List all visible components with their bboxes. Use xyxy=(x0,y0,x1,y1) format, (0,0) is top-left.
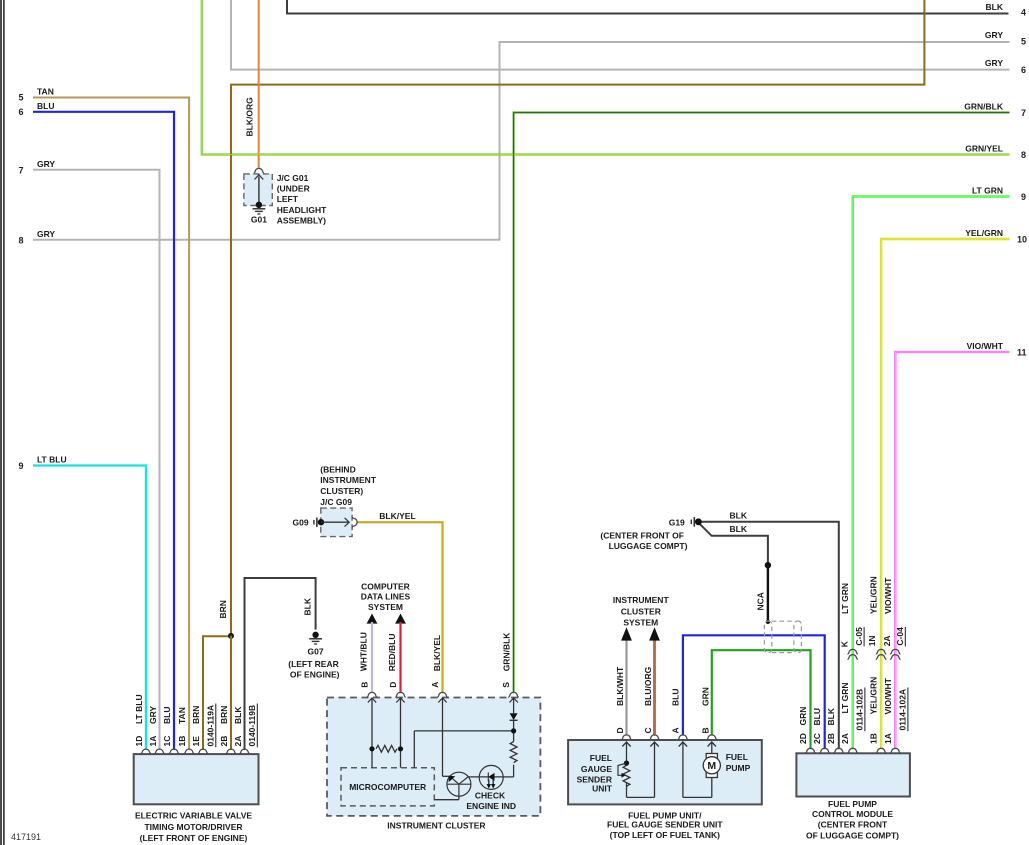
svg-text:COMPUTER: COMPUTER xyxy=(361,582,410,592)
svg-text:GRY: GRY xyxy=(985,58,1003,68)
svg-text:5: 5 xyxy=(18,93,23,103)
svg-text:LT GRN: LT GRN xyxy=(840,583,850,614)
svg-text:UNIT: UNIT xyxy=(592,784,613,794)
svg-text:1A: 1A xyxy=(148,736,158,747)
svg-text:BLU/ORG: BLU/ORG xyxy=(643,666,653,706)
WHT/BLU stripe white core xyxy=(371,622,373,693)
svg-text:A: A xyxy=(670,727,680,733)
svg-text:(UNDER: (UNDER xyxy=(277,183,310,193)
box electric variable valve timing motor/driver xyxy=(134,754,259,804)
wire BLK G19 to module pin 2B xyxy=(700,522,839,749)
svg-text:LT BLU: LT BLU xyxy=(37,455,67,465)
wire BRN pin2B xyxy=(230,636,232,750)
svg-text:FUEL: FUEL xyxy=(726,752,748,762)
svg-text:VIO/WHT: VIO/WHT xyxy=(967,341,1004,351)
wire GRN/YEL top to row8-right xyxy=(202,0,1010,155)
svg-text:(CENTER FRONT OF: (CENTER FRONT OF xyxy=(600,530,684,540)
svg-text:LEFT: LEFT xyxy=(277,194,299,204)
wire fuel pin C down xyxy=(654,742,656,798)
wire ORG top to J/C G01 xyxy=(258,0,260,168)
svg-text:1N: 1N xyxy=(867,635,877,646)
wire VIO/WHT row11-right to module pin 1A xyxy=(895,352,1009,749)
arrow fuel pin A xyxy=(679,742,687,747)
arrow to computer data lines system WHT/BLU xyxy=(367,614,378,624)
svg-text:GRN/BLK: GRN/BLK xyxy=(501,632,511,672)
wire transistor base lead xyxy=(458,796,460,800)
inline connector C-04 pin 2A lower cup xyxy=(890,655,900,659)
wire cluster pin D to microcomputer xyxy=(400,698,402,768)
wire microcomputer to transistor base xyxy=(434,799,459,801)
connector cup VVT pin 1C xyxy=(169,749,179,753)
svg-text:2A: 2A xyxy=(233,736,243,747)
svg-text:TIMING MOTOR/DRIVER: TIMING MOTOR/DRIVER xyxy=(144,822,242,832)
svg-text:2C: 2C xyxy=(812,733,822,744)
svg-text:GAUGE: GAUGE xyxy=(581,764,613,774)
svg-text:2B: 2B xyxy=(219,736,229,747)
svg-text:1B: 1B xyxy=(869,733,879,744)
svg-text:11: 11 xyxy=(1017,348,1027,358)
wire BRN branch pin1E xyxy=(203,636,231,750)
svg-text:1E: 1E xyxy=(191,736,201,747)
connector cup module pin 2C xyxy=(820,748,830,752)
svg-text:2D: 2D xyxy=(798,733,808,744)
junction dot node B xyxy=(369,746,374,751)
arrow cluster pin S xyxy=(510,698,518,703)
wire BLU/ORG fuel pin C xyxy=(653,641,655,736)
wire cluster pin B to microcomputer xyxy=(371,698,373,768)
svg-text:OF LUGGAGE COMPT): OF LUGGAGE COMPT) xyxy=(806,830,899,840)
wire TAN row5-left xyxy=(33,98,189,750)
J/C G09 xyxy=(314,508,357,536)
svg-text:DATA LINES: DATA LINES xyxy=(361,592,411,602)
svg-text:YEL/GRN: YEL/GRN xyxy=(965,228,1003,238)
svg-text:S: S xyxy=(501,682,511,688)
svg-text:GRY: GRY xyxy=(148,706,158,724)
svg-text:(CENTER FRONT: (CENTER FRONT xyxy=(818,820,888,830)
svg-text:2A: 2A xyxy=(882,635,892,646)
connector cup VVT pin 2A xyxy=(239,749,249,753)
svg-text:1A: 1A xyxy=(883,733,893,744)
svg-text:YEL/GRN: YEL/GRN xyxy=(869,677,879,715)
box instrument cluster xyxy=(327,698,540,816)
svg-text:BRN: BRN xyxy=(219,706,229,724)
svg-text:FUEL: FUEL xyxy=(590,753,612,763)
connector cup fuel pin D xyxy=(621,735,631,739)
wiper arrow fuel sender xyxy=(618,763,627,775)
svg-text:(BEHIND: (BEHIND xyxy=(320,464,355,474)
box fuel pump control module xyxy=(796,753,910,796)
connector cup VVT pin 1A xyxy=(154,749,164,753)
svg-text:C: C xyxy=(643,727,653,733)
wire resistor to corner xyxy=(513,765,515,777)
connector cup module pin 2B xyxy=(834,748,844,752)
wire transistor collector to LED xyxy=(468,776,479,778)
svg-text:INSTRUMENT: INSTRUMENT xyxy=(613,595,670,605)
svg-text:M: M xyxy=(707,760,716,772)
svg-text:(LEFT FRONT OF ENGINE): (LEFT FRONT OF ENGINE) xyxy=(140,833,248,843)
connector cup VVT pin 1B xyxy=(184,749,194,753)
wire BLK/ORG top right down-left-down to BRN junction xyxy=(231,0,924,636)
svg-text:BLU: BLU xyxy=(812,708,822,725)
svg-text:BLU: BLU xyxy=(670,689,680,706)
svg-text:(LEFT REAR: (LEFT REAR xyxy=(288,659,339,669)
svg-text:GRY: GRY xyxy=(37,159,55,169)
wire fuel pin D to sender xyxy=(626,742,628,766)
wire motor to pin A xyxy=(683,796,712,798)
arrow fuel pin B xyxy=(708,742,716,747)
svg-text:ENGINE IND: ENGINE IND xyxy=(466,801,516,811)
BLK/WHT stripe white core xyxy=(626,641,628,736)
wire sender to pin C xyxy=(627,796,655,798)
wire cluster pin S to diode xyxy=(513,698,515,713)
BLU/ORG stripe orange core xyxy=(654,641,656,736)
svg-text:BLU: BLU xyxy=(162,707,172,724)
svg-text:BLK: BLK xyxy=(303,597,313,615)
J/C G01 xyxy=(244,168,272,214)
connector cup fuel pin C xyxy=(649,735,659,739)
computer data lines arrows xyxy=(367,614,660,641)
svg-text:BLK: BLK xyxy=(730,511,748,521)
connector cup VVT pin 1D xyxy=(141,749,151,753)
wire GRY row7-left xyxy=(33,170,160,750)
RED/BLU stripe blue core xyxy=(400,622,402,693)
arrow cluster pin A xyxy=(438,698,446,703)
svg-text:CLUSTER: CLUSTER xyxy=(621,607,661,617)
wire corner to LED xyxy=(503,776,513,778)
wire fuel pin B to motor xyxy=(711,742,713,754)
wire BLU row6-left xyxy=(33,112,174,750)
junction dot BRN xyxy=(228,633,234,639)
svg-text:0114-102B: 0114-102B xyxy=(855,689,865,731)
rotated wire labels xyxy=(134,97,908,747)
arrow cluster pin B xyxy=(368,698,376,703)
svg-text:K: K xyxy=(839,640,849,647)
svg-text:FUEL GAUGE SENDER UNIT: FUEL GAUGE SENDER UNIT xyxy=(607,820,723,830)
wire stripes (two-tone cores) xyxy=(202,0,1010,749)
svg-text:INSTRUMENT CLUSTER: INSTRUMENT CLUSTER xyxy=(387,820,485,830)
svg-text:1C: 1C xyxy=(162,736,172,747)
wire node branch down to microcomputer xyxy=(413,731,415,768)
svg-text:TAN: TAN xyxy=(37,87,54,97)
wire BLK row4 top xyxy=(287,0,1009,14)
svg-text:BLK: BLK xyxy=(986,2,1004,12)
VIO/WHT stripe white core xyxy=(895,352,1009,749)
svg-text:2A: 2A xyxy=(840,733,850,744)
svg-text:8: 8 xyxy=(1021,150,1026,160)
svg-text:GRN: GRN xyxy=(798,707,808,726)
svg-text:YEL/GRN: YEL/GRN xyxy=(869,576,879,614)
wire LT BLU row9-left xyxy=(33,466,146,750)
svg-text:GRY: GRY xyxy=(37,229,55,239)
svg-text:D: D xyxy=(615,727,625,733)
motor M fuel pump xyxy=(703,754,720,778)
svg-text:D: D xyxy=(388,682,398,688)
connector cup fuel pin A xyxy=(678,735,688,739)
wire cluster pin A down xyxy=(442,698,444,776)
svg-text:HEADLIGHT: HEADLIGHT xyxy=(277,205,327,215)
svg-text:8: 8 xyxy=(18,235,23,245)
wire motor bottom xyxy=(711,778,713,798)
captions and block texts xyxy=(135,173,899,843)
svg-text:J/C G09: J/C G09 xyxy=(320,497,352,507)
connector cup module pin 1A xyxy=(890,748,900,752)
svg-text:BLK: BLK xyxy=(233,706,243,724)
svg-text:1D: 1D xyxy=(134,736,144,747)
svg-text:B: B xyxy=(359,682,369,688)
svg-text:0140-119B: 0140-119B xyxy=(247,705,257,747)
svg-text:7: 7 xyxy=(18,165,23,175)
svg-text:SYSTEM: SYSTEM xyxy=(623,618,658,628)
svg-text:WHT/BLU: WHT/BLU xyxy=(358,632,368,671)
LED check engine ind xyxy=(479,765,503,789)
svg-text:TAN: TAN xyxy=(177,707,187,724)
YEL/GRN stripe green core xyxy=(881,239,1009,749)
diode cluster xyxy=(510,713,518,733)
wire BLK/YEL from J/C G09 to cluster pin A xyxy=(357,522,443,693)
svg-text:LT GRN: LT GRN xyxy=(972,186,1003,196)
connector cup cluster pin A xyxy=(437,692,447,696)
svg-text:VIO/WHT: VIO/WHT xyxy=(883,577,893,614)
inline connector C-05 pin K upper cup xyxy=(848,649,858,653)
arrow fuel pin C xyxy=(650,742,658,747)
svg-text:5: 5 xyxy=(1021,37,1026,47)
wire LT GRN row9-right to module pin 2A xyxy=(853,197,1010,750)
transistor Q1 xyxy=(447,772,471,796)
GRN/YEL stripe yellow core xyxy=(202,0,1010,155)
svg-text:0114-102A: 0114-102A xyxy=(898,689,908,731)
wire diode to node xyxy=(513,720,515,741)
resistor fuel gauge sender (variable) xyxy=(623,765,630,786)
junction dot node D xyxy=(398,746,403,751)
svg-text:C-05: C-05 xyxy=(854,627,864,646)
resistor cluster vertical xyxy=(510,742,517,763)
box microcomputer xyxy=(341,768,434,806)
svg-text:OF ENGINE): OF ENGINE) xyxy=(290,669,340,679)
svg-text:LUGGAGE COMPT): LUGGAGE COMPT) xyxy=(609,541,688,551)
svg-text:BLK/YEL: BLK/YEL xyxy=(379,511,415,521)
svg-text:6: 6 xyxy=(1021,65,1026,75)
svg-text:BLK: BLK xyxy=(826,707,836,725)
wire YEL/GRN row10-right to module pin 1B xyxy=(881,239,1009,749)
wire BLK/WHT fuel pin D xyxy=(626,641,628,736)
connector cup module pin 1B xyxy=(876,748,886,752)
svg-text:GRY: GRY xyxy=(985,30,1003,40)
resistor cluster horizontal xyxy=(376,745,397,752)
svg-text:ASSEMBLY): ASSEMBLY) xyxy=(277,215,326,225)
svg-text:BLK/ORG: BLK/ORG xyxy=(245,97,255,137)
ground G07 xyxy=(309,632,322,644)
svg-text:ELECTRIC VARIABLE VALVE: ELECTRIC VARIABLE VALVE xyxy=(135,811,252,821)
inline connector C-05 pin K lower cup xyxy=(848,655,858,659)
inline connector C-04 pin 2A upper cup xyxy=(890,649,900,653)
connector cup VVT pin 1E xyxy=(198,749,208,753)
wire GRY row8-left to row5-right xyxy=(33,42,1010,240)
svg-text:(TOP LEFT OF FUEL TANK): (TOP LEFT OF FUEL TANK) xyxy=(610,830,721,840)
BLK/YEL stripe yellow core xyxy=(357,522,443,693)
inline connector pin 1N upper cup xyxy=(876,649,886,653)
svg-text:BLK: BLK xyxy=(730,524,748,534)
svg-text:0140-119A: 0140-119A xyxy=(206,705,216,747)
svg-text:1B: 1B xyxy=(177,736,187,747)
connector cup fuel pin B xyxy=(707,735,717,739)
svg-text:VIO/WHT: VIO/WHT xyxy=(883,677,893,714)
connector cup VVT pin 2B xyxy=(226,749,236,753)
svg-text:BRN: BRN xyxy=(191,706,201,724)
svg-text:9: 9 xyxy=(1021,192,1026,202)
svg-text:J/C G01: J/C G01 xyxy=(277,173,309,183)
page border left double line xyxy=(0,0,2,845)
svg-text:BRN: BRN xyxy=(218,600,228,618)
wire cluster pin A to transistor emitter xyxy=(443,775,451,777)
ground G19 xyxy=(691,517,702,527)
svg-text:MICROCOMPUTER: MICROCOMPUTER xyxy=(349,782,426,792)
GRN/BLK stripe dark core xyxy=(514,113,1010,694)
arrow cluster pin D xyxy=(396,698,404,703)
connector cup cluster pin D xyxy=(395,692,405,696)
svg-text:CLUSTER): CLUSTER) xyxy=(320,486,363,496)
svg-text:10: 10 xyxy=(1017,235,1027,245)
svg-text:6: 6 xyxy=(18,107,23,117)
arrow to computer data lines system RED/BLU xyxy=(395,614,406,624)
svg-text:BLU: BLU xyxy=(37,101,54,111)
svg-text:INSTRUMENT: INSTRUMENT xyxy=(320,475,377,485)
connector cup cluster pin S xyxy=(508,692,518,696)
connector cup cluster pin B xyxy=(367,692,377,696)
svg-text:9: 9 xyxy=(18,461,23,471)
svg-text:CONTROL MODULE: CONTROL MODULE xyxy=(812,809,893,819)
svg-text:RED/BLU: RED/BLU xyxy=(387,634,397,672)
svg-text:7: 7 xyxy=(1021,108,1026,118)
wire sender bottom xyxy=(626,782,628,797)
svg-text:LT BLU: LT BLU xyxy=(134,694,144,724)
svg-text:A: A xyxy=(430,682,440,688)
svg-text:CHECK: CHECK xyxy=(475,790,506,800)
wire BLK pin2A to G07 xyxy=(245,578,316,750)
wire fuel pin A down xyxy=(682,742,684,798)
wire BLU fuel pin A to module 2C xyxy=(683,635,825,749)
svg-text:4: 4 xyxy=(1021,7,1026,17)
svg-text:GRN/BLK: GRN/BLK xyxy=(964,102,1004,112)
svg-text:GRN/YEL: GRN/YEL xyxy=(965,144,1003,154)
wire GRY top to row6-right xyxy=(231,0,1010,70)
connector cup module pin 2A xyxy=(848,748,858,752)
arrow fuel pin D xyxy=(622,742,630,747)
svg-text:417191: 417191 xyxy=(11,832,41,842)
svg-text:SYSTEM: SYSTEM xyxy=(368,602,403,612)
wire GRN fuel pin B to module 2D xyxy=(712,650,811,749)
junction dot sender top xyxy=(624,761,629,766)
box fuel pump unit / fuel gauge sender unit xyxy=(568,740,762,804)
svg-text:GRN: GRN xyxy=(700,687,710,706)
connector cup module pin 2D xyxy=(805,748,815,752)
arrow to instrument cluster system BLU/ORG xyxy=(649,627,660,640)
svg-text:LT GRN: LT GRN xyxy=(840,682,850,713)
arrow to instrument cluster system BLK/WHT xyxy=(621,627,632,640)
inline connector pin 1N lower cup xyxy=(876,655,886,659)
svg-text:PUMP: PUMP xyxy=(726,763,751,773)
svg-text:C-04: C-04 xyxy=(895,627,905,646)
wire node to microcomputer horizontal xyxy=(414,730,513,732)
svg-text:G01: G01 xyxy=(251,215,267,225)
svg-text:2B: 2B xyxy=(826,733,836,744)
svg-text:G09: G09 xyxy=(293,518,309,528)
wire BLK G19 branch to NCA xyxy=(699,523,768,565)
dashed connector capsule xyxy=(764,621,801,653)
svg-text:BLK/YEL: BLK/YEL xyxy=(432,635,442,671)
svg-text:BLK/WHT: BLK/WHT xyxy=(615,666,625,706)
svg-text:B: B xyxy=(700,727,710,733)
svg-text:NCA: NCA xyxy=(756,592,766,610)
wire NCA stub xyxy=(767,565,769,622)
wire RED/BLU arrow-stub xyxy=(399,622,401,693)
svg-text:G19: G19 xyxy=(669,517,685,527)
wire GRN/BLK row7-right to cluster pin S xyxy=(514,113,1010,694)
wire WHT/BLU arrow-stub xyxy=(371,622,373,693)
LT GRN row9 stripe xyxy=(853,197,1010,750)
svg-text:FUEL PUMP: FUEL PUMP xyxy=(828,799,877,809)
svg-text:G07: G07 xyxy=(308,646,324,656)
